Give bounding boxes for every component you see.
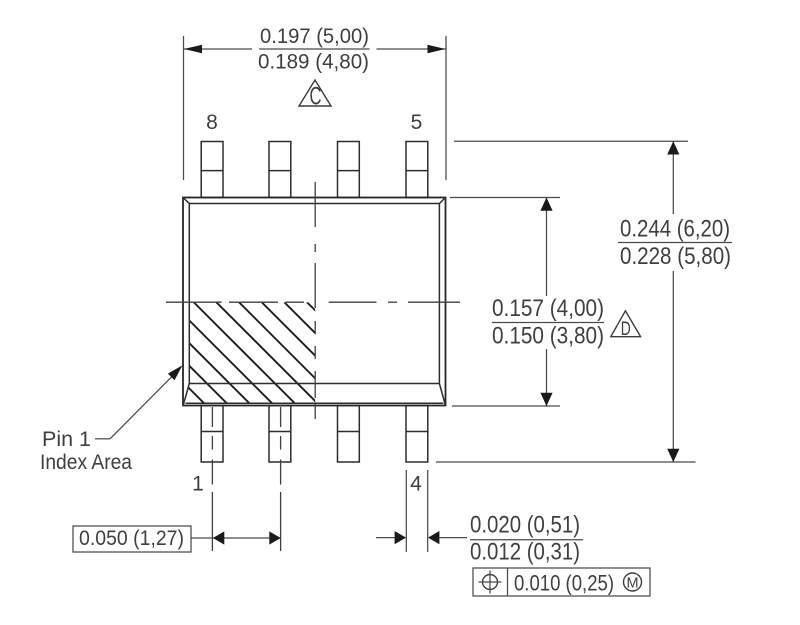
arrowhead down of 0.157 <box>540 393 552 406</box>
svg-text:0.157 (4,00): 0.157 (4,00) <box>492 295 604 322</box>
vertical centerline <box>314 182 316 419</box>
body corner bevel top-right <box>439 198 445 204</box>
true position symbol <box>483 575 498 590</box>
fraction bar 0.157/0.150 <box>492 322 604 324</box>
body corner bevel top-left <box>183 198 189 204</box>
fraction bar 0.244/0.228 <box>618 242 732 244</box>
pin 2 lead <box>269 406 291 463</box>
extension line body bottom (for 0.157) <box>452 405 560 407</box>
svg-text:D: D <box>621 318 631 340</box>
feature control frame box <box>473 568 650 596</box>
body inner left edge <box>188 204 190 384</box>
svg-text:0.228 (5,80): 0.228 (5,80) <box>620 243 731 270</box>
dimension line 0.197 horizontal left segment <box>184 48 252 50</box>
pin 4 left edge extension line <box>405 470 407 552</box>
svg-text:M: M <box>626 576 638 592</box>
svg-text:0.050 (1,27): 0.050 (1,27) <box>79 527 184 550</box>
body second bottom edge <box>186 402 444 404</box>
pin 4 lead <box>406 406 428 463</box>
pin 3 lead <box>338 406 360 463</box>
pitch arrowhead right <box>269 531 280 544</box>
svg-text:0.012 (0,31): 0.012 (0,31) <box>470 539 580 566</box>
svg-text:Index Area: Index Area <box>40 451 132 474</box>
hatch lines (pin 1 index area) <box>103 302 409 404</box>
arrowhead right of 0.197 <box>428 45 446 53</box>
dimension 0.197/0.189 extension line left <box>183 36 185 180</box>
dimension line 0.197 horizontal right segment <box>377 48 446 50</box>
feature control frame divider <box>507 568 509 596</box>
body corner bevel bottom-left <box>183 384 189 406</box>
svg-text:8: 8 <box>206 111 218 134</box>
arrowhead left of 0.197 <box>184 45 202 53</box>
arrowhead up of 0.244 <box>667 141 679 154</box>
pin 5 lead <box>406 142 428 198</box>
lead width arrowhead left <box>395 531 406 544</box>
svg-text:0.244 (6,20): 0.244 (6,20) <box>620 216 730 243</box>
MMC modifier circle M <box>624 573 642 591</box>
pin 1 lead (bottom) <box>201 406 223 463</box>
arrowhead down of 0.244 <box>667 449 679 462</box>
svg-text:0.020 (0,51): 0.020 (0,51) <box>470 512 580 539</box>
leader line dash from Pin 1 <box>95 438 110 440</box>
extension line pin tips top (for 0.244) <box>454 140 688 142</box>
fraction bar 0.020/0.012 <box>470 539 583 541</box>
svg-text:0.150 (3,80): 0.150 (3,80) <box>492 323 604 350</box>
dimension 0.197/0.189 extension line right <box>445 36 447 180</box>
svg-text:0.197 (5,00): 0.197 (5,00) <box>260 25 369 48</box>
extension line body top (for 0.157) <box>450 197 560 199</box>
svg-text:C: C <box>310 83 322 111</box>
leader arrowhead at body corner <box>168 365 183 380</box>
dimension line 0.244 vertical upper segment <box>672 141 674 214</box>
dimension line 0.157 vertical upper segment <box>546 198 548 297</box>
fraction bar 0.197/0.189 <box>259 48 370 50</box>
pin 6 lead <box>338 142 360 198</box>
pitch arrowhead left <box>213 531 224 544</box>
pin 8 (top left lead) <box>201 142 223 198</box>
pin 4 right edge extension line <box>427 470 429 552</box>
pin 7 lead <box>269 142 291 198</box>
body inner right edge <box>438 204 440 384</box>
dimension line 0.157 vertical lower segment <box>546 349 548 406</box>
datum triangle D <box>611 311 641 337</box>
package body outer outline <box>183 198 446 406</box>
leader from box to pitch dimension <box>191 537 213 539</box>
svg-text:5: 5 <box>411 111 423 134</box>
svg-text:0.010 (0,25): 0.010 (0,25) <box>514 571 614 596</box>
extension line pin tips bottom (for 0.244) <box>436 461 696 463</box>
body corner bevel bottom-right <box>439 384 445 406</box>
svg-text:1: 1 <box>192 473 204 496</box>
boxed dimension 0.050 (1,27) frame <box>73 526 191 552</box>
datum triangle C <box>299 80 331 106</box>
svg-text:0.189 (4,80): 0.189 (4,80) <box>258 51 369 74</box>
pin 1 centerline <box>211 407 213 551</box>
pin 2 centerline <box>280 407 282 551</box>
svg-text:Pin 1: Pin 1 <box>42 428 91 451</box>
lead width arrow left tail <box>376 537 395 539</box>
lead width arrow right tail <box>439 537 467 539</box>
horizontal centerline <box>166 301 460 303</box>
leader diagonal line <box>110 377 172 439</box>
lead width arrowhead right <box>428 531 439 544</box>
arrowhead up of 0.157 <box>540 198 552 211</box>
dimension line 0.244 vertical lower segment <box>672 271 674 462</box>
body inner top edge <box>189 203 439 205</box>
body inner bottom edge <box>189 383 439 385</box>
pitch dimension line <box>213 537 281 539</box>
svg-text:4: 4 <box>410 473 422 496</box>
